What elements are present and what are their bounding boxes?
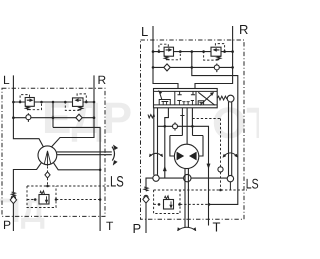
svg-text:LS: LS — [110, 174, 124, 191]
svg-text:P: P — [133, 221, 142, 236]
svg-text:R: R — [239, 22, 248, 37]
svg-text:ОТ: ОТ — [212, 99, 259, 148]
svg-text:L: L — [141, 24, 148, 39]
svg-text:T: T — [106, 219, 114, 233]
svg-text:P: P — [3, 218, 11, 232]
svg-text:T: T — [213, 220, 221, 235]
svg-text:L: L — [3, 73, 10, 87]
svg-text:R: R — [98, 73, 107, 87]
svg-text:LS: LS — [246, 176, 259, 192]
